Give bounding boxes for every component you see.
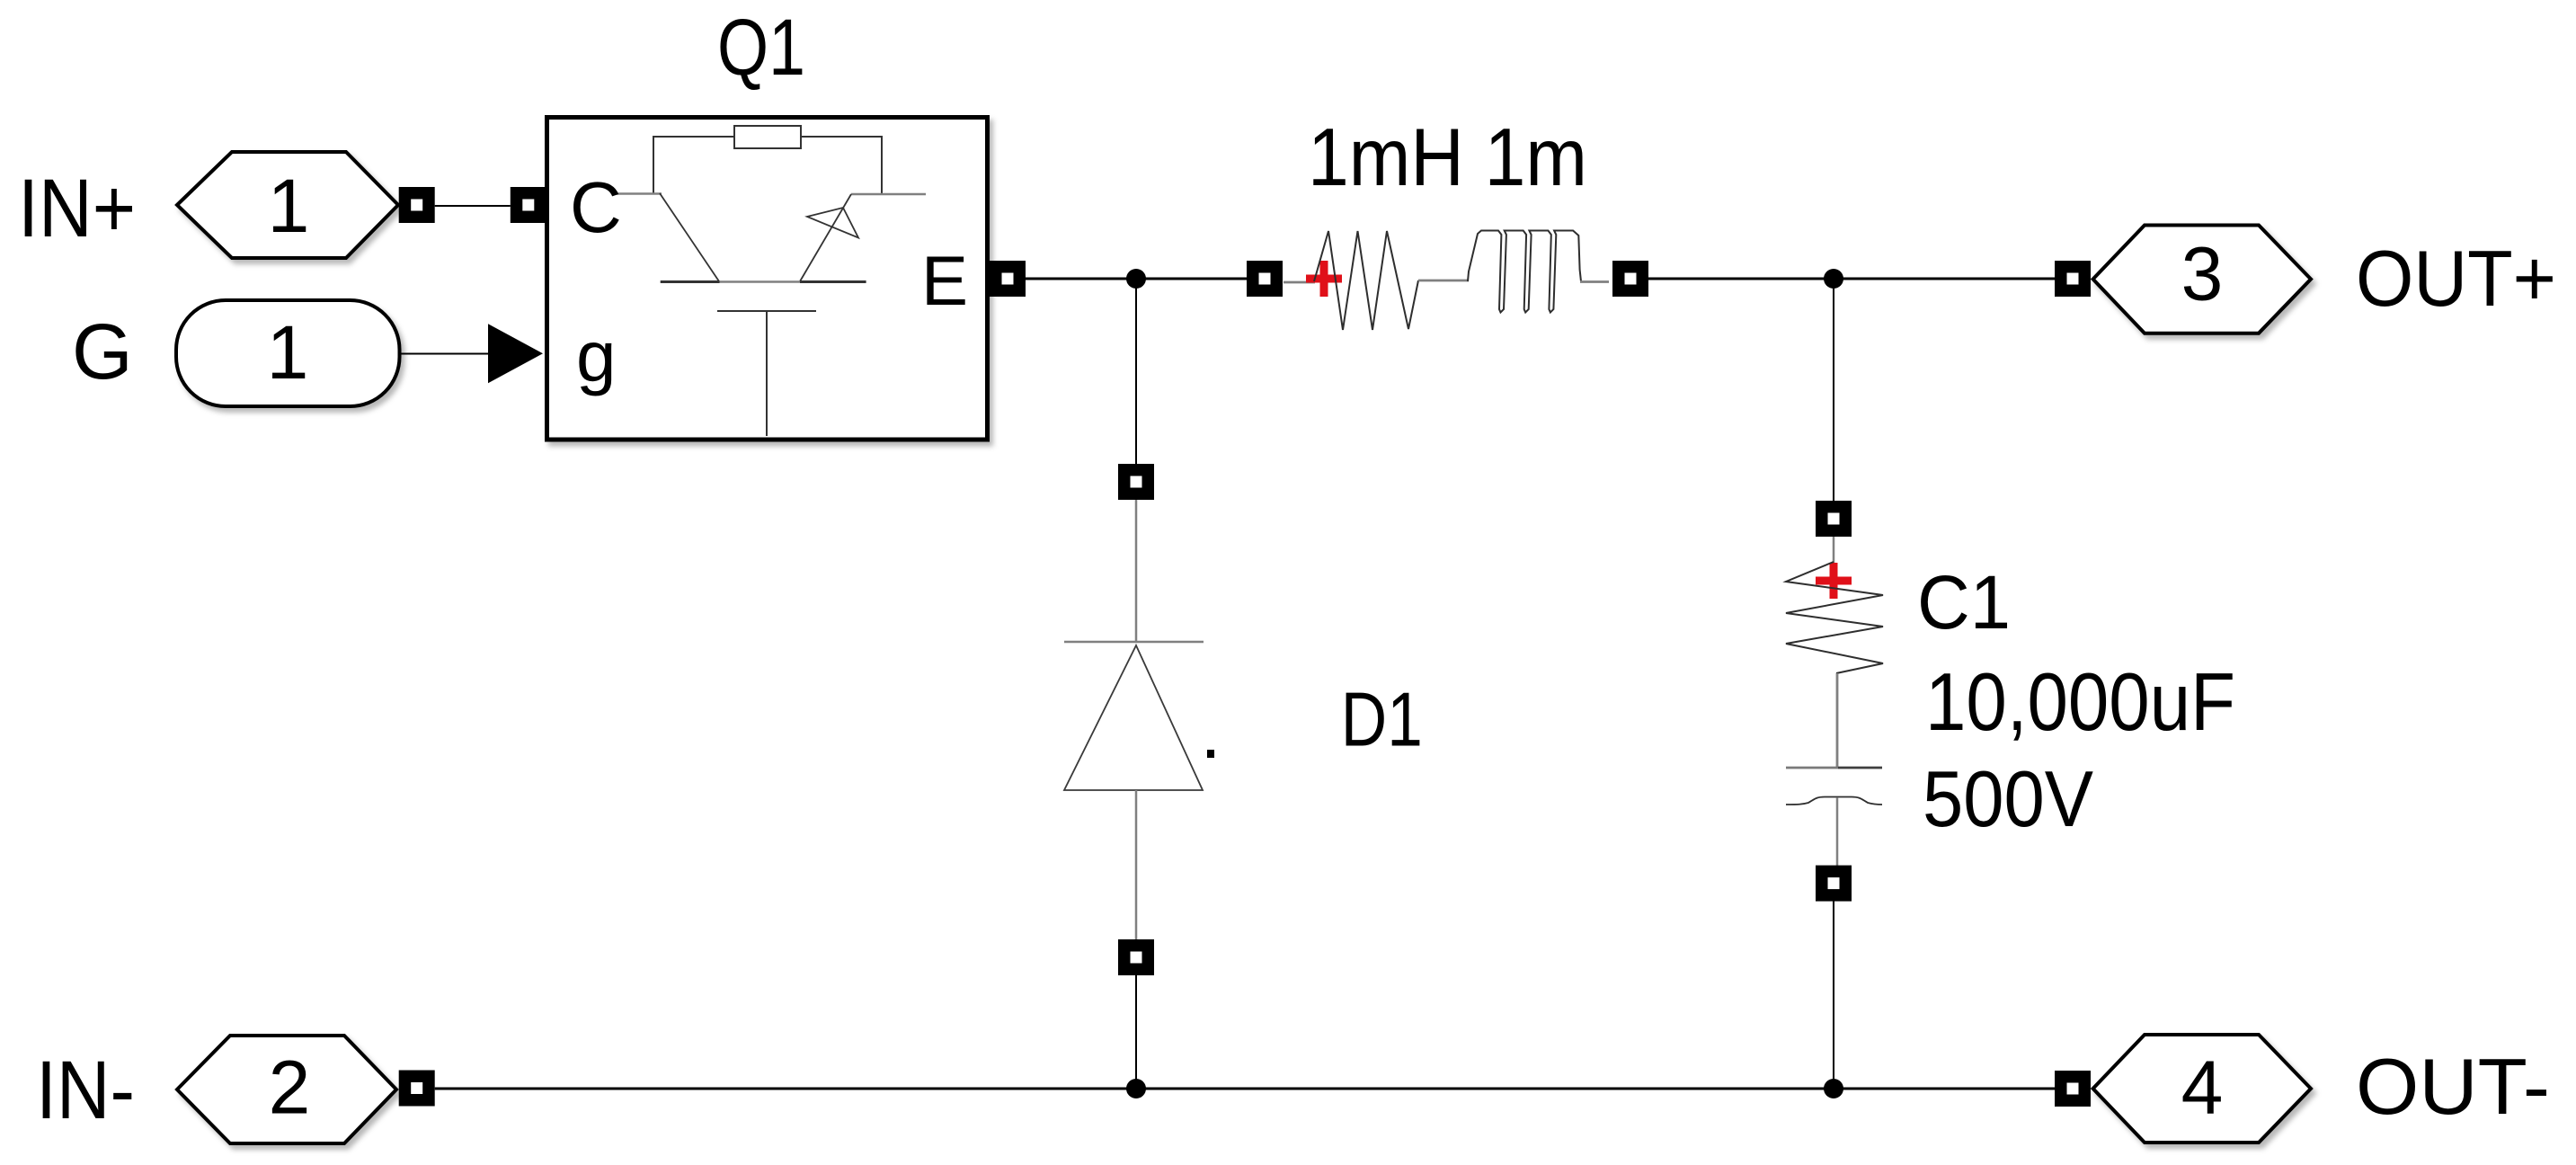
svg-text:1: 1 bbox=[267, 310, 309, 395]
diode D1 cathode bar bbox=[1064, 641, 1204, 644]
transistor Q1 icon: collector diagonal bbox=[660, 193, 719, 281]
wire inductor L1 mid link bbox=[1418, 280, 1469, 282]
inductor L1 polarity plus mark bbox=[1306, 261, 1342, 297]
inductor L1 series resistance zigzag bbox=[1314, 231, 1418, 330]
transistor Q1 icon: channel bar bbox=[719, 280, 800, 283]
transistor Q1 icon: emitter line bbox=[851, 193, 926, 196]
wire IN+ to C bbox=[435, 205, 511, 207]
wire E to L1 bbox=[1026, 278, 1247, 280]
port OUT- hexagon 4 bbox=[2093, 1035, 2311, 1143]
wire diode D1 cathode stub bbox=[1135, 500, 1138, 642]
svg-text:1mH 1m: 1mH 1m bbox=[1308, 112, 1587, 203]
pad OUT- bbox=[2055, 1071, 2091, 1107]
wire D1 to bottom rail bbox=[1135, 975, 1137, 1089]
pad D1 top bbox=[1118, 464, 1154, 500]
wire inductor L1 left stub bbox=[1284, 281, 1315, 284]
pad C1 bottom bbox=[1816, 866, 1852, 902]
diode D1 triangle bbox=[1064, 645, 1203, 790]
svg-text:G: G bbox=[72, 308, 133, 396]
svg-text:1: 1 bbox=[268, 164, 310, 248]
transistor Q1 icon: internal resistor box bbox=[734, 126, 801, 148]
junction node D1 bottom bbox=[1126, 1079, 1146, 1098]
svg-text:10,000uF: 10,000uF bbox=[1925, 657, 2235, 748]
junction node D1 top bbox=[1126, 269, 1146, 289]
block Q1 bbox=[547, 118, 988, 440]
port OUT+ hexagon 3 bbox=[2093, 226, 2311, 333]
transistor Q1 icon: gate stem bbox=[766, 312, 768, 436]
wire G to arrow bbox=[400, 353, 491, 355]
transistor Q1 icon: emitter diagonal bbox=[800, 194, 851, 281]
inductor L1 coil bbox=[1468, 231, 1581, 313]
svg-text:Q1: Q1 bbox=[717, 2, 805, 92]
svg-text:2: 2 bbox=[269, 1045, 311, 1130]
svg-text:IN-: IN- bbox=[36, 1045, 135, 1136]
wire capacitor C1 bottom stub bbox=[1836, 797, 1839, 866]
junction node C1 top bbox=[1824, 269, 1843, 289]
port G oval 1 bbox=[176, 300, 400, 406]
wire L1 to OUT+ bbox=[1648, 278, 2055, 280]
svg-text:4: 4 bbox=[2181, 1045, 2224, 1130]
bottom rail wire bbox=[435, 1088, 2055, 1090]
wire capacitor C1 mid link bbox=[1836, 673, 1839, 768]
port IN- hexagon 2 bbox=[177, 1036, 396, 1143]
svg-text:C: C bbox=[570, 167, 622, 247]
svg-text:g: g bbox=[576, 316, 617, 396]
transistor Q1 icon: wire box to collector bbox=[653, 137, 734, 194]
capacitor C1 curved plate bbox=[1786, 797, 1882, 805]
wire inductor L1 right stub bbox=[1580, 280, 1609, 283]
pad L1 left bbox=[1247, 261, 1283, 297]
transistor Q1 icon: collector stub bbox=[616, 192, 662, 195]
pad IN- bbox=[399, 1071, 435, 1107]
pad C bbox=[511, 187, 546, 223]
wire junction down to D1 bbox=[1135, 279, 1137, 464]
pad E bbox=[990, 261, 1026, 297]
transistor Q1 icon: emitter arrowhead bbox=[807, 208, 858, 238]
svg-text:500V: 500V bbox=[1923, 754, 2093, 843]
wire diode D1 anode stub bbox=[1135, 790, 1138, 939]
svg-text:OUT-: OUT- bbox=[2356, 1042, 2550, 1131]
capacitor C1 series resistance zigzag bbox=[1786, 562, 1883, 673]
transistor Q1 icon: gate bar bbox=[717, 310, 816, 312]
wire junction down to C1 bbox=[1833, 279, 1834, 502]
arrowhead into g bbox=[488, 324, 543, 383]
svg-text:3: 3 bbox=[2181, 232, 2224, 316]
svg-text:OUT+: OUT+ bbox=[2356, 234, 2556, 323]
pad IN+ bbox=[399, 187, 435, 223]
junction node C1 bottom bbox=[1824, 1079, 1843, 1098]
port IN+ hexagon 1 bbox=[177, 152, 398, 258]
pad L1 right bbox=[1612, 261, 1648, 297]
svg-text:C1: C1 bbox=[1917, 560, 2011, 645]
wire C1 to bottom rail bbox=[1833, 901, 1834, 1089]
capacitor C1 top plate bbox=[1786, 767, 1838, 769]
capacitor C1 polarity plus mark bbox=[1816, 563, 1852, 599]
wire capacitor C1 top stub bbox=[1833, 537, 1835, 563]
diode D1 orientation dot bbox=[1207, 750, 1214, 758]
pad D1 bottom bbox=[1118, 939, 1154, 975]
transistor Q1 icon: wire box to emitter line bbox=[801, 137, 882, 194]
svg-text:E: E bbox=[921, 241, 968, 320]
pad C1 top bbox=[1816, 501, 1852, 537]
pad OUT+ bbox=[2055, 261, 2091, 297]
svg-text:IN+: IN+ bbox=[18, 163, 136, 254]
svg-text:D1: D1 bbox=[1341, 678, 1423, 763]
